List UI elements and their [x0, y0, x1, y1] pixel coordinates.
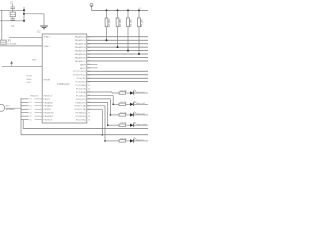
junction — [138, 9, 140, 11]
junction — [106, 39, 108, 41]
svg-text:PA5(ADC5): PA5(ADC5) — [75, 53, 87, 56]
wire rail lower 2 — [21, 134, 148, 136]
svg-text:PD6(ICP1): PD6(ICP1) — [75, 102, 86, 104]
svg-text:PB5/MOSI: PB5/MOSI — [44, 113, 54, 115]
wire — [126, 114, 130, 116]
svg-text:11.0592M: 11.0592M — [7, 44, 16, 46]
svg-text:SP1: SP1 — [6, 106, 11, 108]
wire — [138, 10, 140, 18]
wire cap common vertical — [23, 7, 25, 21]
wire — [126, 103, 130, 105]
resistor R2 — [116, 18, 119, 27]
wire — [106, 27, 108, 41]
LED D4 — [130, 124, 134, 127]
wire PA2 — [87, 43, 148, 45]
svg-text:XTAL1: XTAL1 — [44, 45, 51, 48]
svg-text:RESET: RESET — [44, 80, 52, 82]
svg-text:MISO: MISO — [27, 79, 33, 81]
stub AREF — [87, 63, 98, 65]
wire — [21, 115, 29, 117]
wire rail lower 1 — [23, 128, 148, 130]
wire — [134, 124, 148, 126]
bus vertical — [20, 98, 22, 135]
wire — [87, 108, 103, 110]
wire PC7 — [87, 70, 148, 72]
svg-text:PB7/SCK: PB7/SCK — [44, 120, 53, 122]
svg-text:PA7(ADC7): PA7(ADC7) — [75, 60, 87, 63]
wire — [35, 112, 43, 114]
junction — [102, 134, 104, 136]
svg-text:C1: C1 — [11, 25, 15, 28]
stub AVCC — [87, 67, 98, 69]
wire PA6 — [87, 57, 148, 59]
wire — [126, 124, 130, 126]
bus vertical 2 — [22, 120, 24, 129]
svg-text:14: 14 — [29, 99, 32, 101]
svg-text:PA6(ADC6): PA6(ADC6) — [75, 56, 87, 59]
wire PC4 — [87, 81, 148, 83]
svg-text:XTAL2: XTAL2 — [44, 36, 51, 39]
wire PA1 — [87, 39, 148, 41]
LED D5 — [130, 139, 134, 142]
svg-text:PC1(SDA): PC1(SDA) — [76, 91, 86, 94]
svg-text:PA1(ADC1): PA1(ADC1) — [75, 39, 87, 42]
svg-text:PD2(INT0): PD2(INT0) — [76, 116, 87, 118]
svg-text:R1 10K: R1 10K — [108, 19, 111, 27]
wire — [87, 94, 113, 96]
wire — [106, 10, 108, 18]
resistor R7 — [119, 114, 126, 116]
wire — [35, 98, 43, 100]
junction — [117, 9, 119, 11]
svg-text:AVCC: AVCC — [80, 67, 86, 70]
svg-text:R7 330: R7 330 — [120, 112, 126, 114]
wire PA4 — [87, 50, 148, 52]
junction — [127, 9, 129, 11]
wire — [21, 98, 29, 100]
svg-text:15: 15 — [88, 119, 91, 121]
LED D2 — [130, 103, 134, 106]
svg-text:20: 20 — [29, 119, 32, 121]
svg-text:PB0/XCK: PB0/XCK — [44, 95, 53, 97]
svg-text:25: 25 — [88, 85, 91, 87]
wire — [87, 91, 112, 93]
svg-text:PC7(TOSC2): PC7(TOSC2) — [73, 71, 86, 73]
svg-text:24: 24 — [88, 88, 91, 90]
junction — [104, 140, 106, 142]
speaker LS1 — [0, 104, 5, 111]
junction — [23, 9, 25, 11]
wire to ground — [24, 13, 44, 15]
wire — [35, 115, 43, 117]
resistor R6 — [119, 103, 126, 105]
svg-text:PA0(ADC0): PA0(ADC0) — [75, 36, 87, 39]
svg-text:19: 19 — [29, 116, 32, 118]
svg-text:SCK: SCK — [27, 82, 32, 84]
svg-text:PC5(TDI): PC5(TDI) — [77, 78, 87, 80]
junction — [107, 124, 109, 126]
wire — [87, 105, 105, 107]
svg-text:R3 10K: R3 10K — [130, 19, 133, 27]
junction — [23, 20, 25, 22]
svg-text:PC6(TOSC1): PC6(TOSC1) — [73, 75, 86, 77]
wire XTAL2 net — [0, 9, 24, 11]
svg-text:PB0/XCK: PB0/XCK — [30, 95, 39, 97]
capacitor C1 — [10, 18, 15, 20]
junction — [117, 46, 119, 48]
svg-text:PB3/AIN1: PB3/AIN1 — [44, 105, 54, 108]
resistor R4 — [138, 18, 141, 27]
svg-text:MOSI: MOSI — [27, 76, 33, 78]
svg-text:PC3(TMS): PC3(TMS) — [76, 85, 87, 87]
IC U2 outline — [42, 34, 87, 123]
wire vcc rail — [92, 9, 149, 11]
svg-text:16: 16 — [29, 106, 32, 108]
svg-text:R8 330: R8 330 — [120, 123, 126, 125]
wire — [127, 27, 129, 51]
wire — [126, 92, 130, 94]
wire — [21, 119, 29, 121]
wire — [87, 101, 108, 103]
LED D3 — [130, 113, 134, 116]
wire — [134, 92, 148, 94]
resistor R3 — [127, 18, 130, 27]
svg-text:17: 17 — [88, 112, 91, 114]
wire PA0 — [87, 36, 148, 38]
svg-text:PA4(ADC4): PA4(ADC4) — [75, 50, 87, 53]
vcc symbol — [90, 3, 93, 6]
wire — [127, 10, 129, 18]
wire — [21, 105, 29, 107]
svg-text:R9 330: R9 330 — [120, 138, 126, 140]
svg-text:PA2(ADC2): PA2(ADC2) — [75, 43, 87, 46]
svg-text:R4 10K: R4 10K — [141, 19, 144, 27]
wire — [35, 108, 43, 110]
svg-text:18: 18 — [29, 113, 32, 115]
junction — [112, 104, 114, 106]
resistor R5 — [119, 92, 126, 94]
svg-text:C2: C2 — [10, 2, 14, 5]
resistor R8 — [119, 124, 126, 126]
wire PA7 — [87, 60, 148, 62]
svg-text:PD1(TXD): PD1(TXD) — [76, 120, 86, 122]
wire XTAL1 net — [0, 20, 24, 22]
resistor R1 — [105, 18, 108, 27]
resistor R9 — [119, 140, 126, 142]
wire PA3 — [87, 46, 148, 48]
svg-text:15: 15 — [29, 102, 32, 104]
crystal X1 — [10, 12, 15, 17]
junction — [138, 53, 140, 55]
wire — [21, 112, 29, 114]
svg-text:PC4(TDO): PC4(TDO) — [76, 82, 87, 84]
svg-text:PC2(TCK): PC2(TCK) — [76, 88, 86, 90]
wire — [5, 107, 21, 109]
svg-text:PD7(OC2): PD7(OC2) — [76, 99, 86, 101]
LED D1 — [130, 91, 134, 94]
svg-text:PB1/T1: PB1/T1 — [44, 99, 52, 101]
vcc arrow — [11, 63, 13, 66]
wire — [117, 10, 119, 18]
wire — [21, 108, 29, 110]
svg-text:16: 16 — [88, 116, 91, 118]
svg-text:PB2/AIN0: PB2/AIN0 — [44, 101, 54, 104]
wire — [35, 101, 43, 103]
wire — [35, 105, 43, 107]
wire — [134, 140, 148, 142]
wire — [35, 119, 43, 121]
svg-text:PD4(OC1B): PD4(OC1B) — [74, 109, 86, 111]
svg-text:AREF: AREF — [80, 63, 86, 66]
svg-text:PD5(OC1A): PD5(OC1A) — [74, 105, 86, 108]
svg-text:PB4/SS: PB4/SS — [44, 109, 52, 111]
wire reset — [2, 65, 42, 67]
svg-text:U2: U2 — [37, 31, 41, 34]
wire — [138, 27, 140, 54]
svg-text:PC0(SCL): PC0(SCL) — [76, 95, 86, 97]
junction — [106, 9, 108, 11]
svg-text:VCC: VCC — [138, 8, 143, 10]
wire — [134, 103, 148, 105]
wire — [134, 114, 148, 116]
wire PA5 — [87, 53, 148, 55]
wire PC5 — [87, 77, 148, 79]
svg-text:PA3(ADC3): PA3(ADC3) — [75, 46, 87, 49]
svg-text:RST: RST — [32, 59, 37, 61]
wire PC6 — [87, 74, 148, 76]
wire — [117, 27, 119, 47]
capacitor C2 — [10, 6, 15, 8]
wire — [87, 98, 111, 100]
junction — [127, 50, 129, 52]
svg-text:R6 330: R6 330 — [120, 102, 126, 104]
svg-text:R2 10K: R2 10K — [119, 19, 122, 27]
wire — [126, 140, 130, 142]
svg-text:ATMEGA16: ATMEGA16 — [57, 83, 70, 86]
svg-text:PD3(INT1): PD3(INT1) — [76, 113, 87, 115]
wire to XTAL2 pin — [9, 36, 42, 38]
svg-text:17: 17 — [29, 109, 32, 111]
junction — [110, 114, 112, 116]
wire — [21, 101, 29, 103]
junction — [23, 13, 25, 15]
ground — [40, 25, 48, 27]
wire to XTAL1 pin — [0, 45, 42, 47]
svg-text:R5 330: R5 330 — [120, 91, 126, 93]
crystal Y2 box — [0, 40, 6, 44]
wire left vertical — [1, 10, 3, 40]
svg-text:PB6/MISO: PB6/MISO — [44, 116, 54, 118]
svg-text:JP1: JP1 — [7, 41, 12, 43]
